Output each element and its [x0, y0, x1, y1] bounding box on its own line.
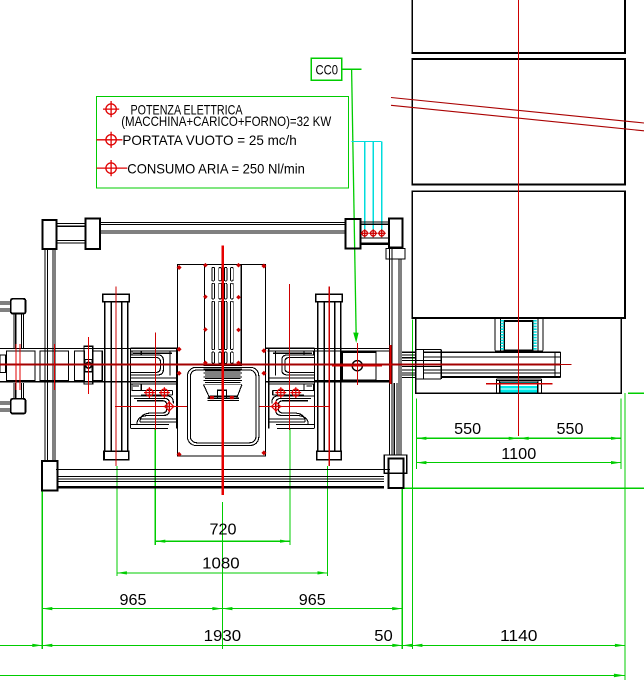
left support stand bottom block	[11, 399, 26, 414]
frame top-left outer block	[43, 220, 57, 249]
hose 3	[381, 142, 383, 232]
right clamp jaw inner	[285, 357, 315, 372]
spindle thread ribs	[204, 366, 242, 385]
clamp bolt symbols right pair	[275, 387, 301, 398]
svg-text:965: 965	[120, 592, 147, 609]
clamp lower crosshair left	[115, 405, 187, 407]
arrows 1100	[416, 461, 426, 464]
spindle tool body	[205, 265, 242, 366]
bottom rail thick lower edge	[58, 486, 385, 488]
note symbol 2	[97, 132, 123, 148]
clamp bolt symbols left pair	[144, 387, 170, 398]
bearing circle	[86, 362, 92, 368]
pad crosshair horizontal	[486, 383, 552, 385]
chuck inner square	[504, 321, 533, 351]
left clamp left edge	[130, 348, 132, 428]
extension line machine left edge	[41, 491, 43, 650]
right arm end cap	[555, 352, 560, 377]
tool slots row 4	[212, 352, 233, 363]
top-left connector bars	[56, 224, 85, 244]
bolt hole circle	[352, 361, 362, 371]
right column body	[318, 302, 341, 452]
left column body	[105, 302, 128, 452]
frame bottom-right outer plate	[384, 455, 407, 473]
conveyor left end plate	[0, 355, 6, 373]
right clamp left verticals	[269, 348, 276, 428]
extension line machine right edge	[401, 489, 403, 649]
tool slots row 2	[212, 283, 233, 299]
tool screw markers	[203, 263, 241, 365]
right clamp mid lines	[269, 378, 315, 384]
left clamp top plate	[131, 348, 178, 351]
arrows 965 left	[42, 607, 52, 610]
conveyor edges inside frame right part	[265, 348, 390, 381]
nozzle red marks	[210, 396, 234, 399]
clamp diamond symbol right	[270, 401, 281, 412]
left clamp lower notch	[132, 384, 141, 391]
chuck cyan hatch left	[501, 320, 504, 350]
arrows 1080	[117, 571, 127, 574]
chuck cyan hatch right	[533, 320, 536, 350]
bottom rail	[58, 477, 385, 482]
arrow bottom overall	[614, 674, 625, 678]
right clamp jaw outer	[282, 355, 315, 375]
hose coupler circles	[361, 229, 386, 237]
extension line left column center	[116, 466, 118, 576]
CC0 label box	[311, 58, 342, 80]
arrows 550 left	[416, 437, 426, 440]
left column foot	[104, 451, 129, 459]
svg-text:50: 50	[374, 628, 393, 645]
roller centerline c	[54, 344, 56, 390]
spindle outer box	[178, 265, 266, 457]
pocket rounded rect inner	[190, 370, 256, 443]
CC0 leader horizontal	[342, 68, 362, 70]
right clamp lower notch	[304, 384, 313, 391]
right arm hatch zone	[402, 352, 416, 377]
left column centerline	[115, 287, 117, 466]
furnace module 1	[412, 0, 625, 53]
conveyor main centerline	[0, 363, 561, 365]
left clamp centerline	[155, 333, 157, 430]
left stand lower arms	[0, 402, 11, 411]
right column cap	[316, 294, 342, 301]
conveyor inner lines right part	[315, 351, 390, 381]
note box POTENZA/PORTATA/CONSUMO	[97, 97, 349, 189]
extension line left clamp center	[154, 429, 156, 545]
coupler 2	[371, 231, 376, 236]
left stand upper legs	[14, 314, 24, 348]
right clamp right edge	[314, 348, 316, 428]
svg-text:965: 965	[299, 592, 326, 609]
red diagonal pipe line lower	[391, 105, 644, 131]
extension line right clamp center	[289, 429, 291, 545]
right arm flange	[416, 349, 442, 379]
conveyor roller box 4	[93, 351, 103, 381]
coupler 1	[362, 231, 367, 236]
svg-text:PORTATA VUOTO = 25 mc/h: PORTATA VUOTO = 25 mc/h	[122, 132, 296, 148]
arrows 1930	[42, 644, 52, 647]
right clamp bolt bar	[273, 390, 304, 395]
stub line right of furnace base	[628, 392, 644, 394]
svg-text:CONSUMO ARIA = 250 Nl/min: CONSUMO ARIA = 250 Nl/min	[127, 161, 305, 177]
frame inner bottom line	[56, 469, 390, 471]
top-right connector bars	[361, 222, 389, 238]
right rail extra lines below arm	[394, 383, 397, 455]
extension line furnace right outer	[624, 393, 626, 680]
left clamp jaw outer	[131, 355, 164, 375]
dimension line 1100	[416, 462, 621, 464]
svg-text:720: 720	[210, 521, 237, 538]
spindle box screw markers	[177, 264, 267, 457]
left column cap	[103, 294, 129, 301]
conveyor bottom edge left of frame	[0, 381, 178, 383]
rail junction centerline	[390, 345, 392, 384]
note symbol 3	[97, 160, 128, 176]
pocket rounded rect outer	[188, 367, 259, 445]
lower pad stripes	[500, 385, 538, 389]
right clamp lower bracket inner	[269, 401, 309, 422]
tool slots row 1	[212, 267, 233, 281]
svg-text:1080: 1080	[202, 556, 240, 573]
floor line right	[398, 487, 644, 489]
conveyor top edge left of frame	[0, 347, 178, 349]
left clamp bolt bar	[141, 390, 172, 395]
dimension line 550+550	[416, 437, 621, 439]
conveyor roller box 2	[40, 351, 69, 381]
furnace module 3	[412, 191, 625, 318]
roller centerline a	[15, 344, 17, 390]
frame bottom-right inner block	[389, 459, 404, 488]
top-right lower plate	[386, 249, 405, 260]
nozzle base plate	[207, 398, 239, 400]
clamp diamond symbol left	[164, 401, 175, 412]
nozzle inner line	[210, 395, 237, 397]
left clamp mid lines	[131, 378, 177, 384]
svg-text:550: 550	[454, 421, 481, 438]
hose header horizontal	[352, 141, 382, 143]
right column centerline	[328, 287, 330, 466]
frame top-right inner block	[346, 219, 361, 248]
left rail	[45, 249, 55, 461]
left clamp lower bracket mid	[134, 398, 170, 424]
frame top-right outer block	[389, 219, 403, 248]
tool slots row 3	[212, 301, 233, 350]
right clamp lower bracket outer	[272, 396, 314, 429]
bolt hole crosshair horizontal	[332, 365, 382, 367]
clamp lower crosshair right	[260, 405, 331, 407]
left stand lower legs	[14, 383, 24, 399]
machine main vertical centerline thick	[221, 246, 224, 495]
top-right connector bottom bar	[361, 243, 389, 245]
green dimension arrowheads	[32, 437, 625, 678]
arrows 1140	[615, 644, 625, 647]
bearing crosshair vertical	[88, 337, 90, 394]
right clamp top plate	[265, 348, 314, 351]
bolt hole crosshair vertical	[356, 343, 358, 385]
dimension line 1930+50+1140	[0, 644, 625, 646]
left clamp jaw inner	[131, 357, 161, 372]
note symbol 1	[103, 101, 119, 117]
lower pad outline	[500, 382, 538, 393]
furnace base section	[416, 318, 622, 393]
furnace vertical centerline	[518, 0, 520, 436]
arrows 550 right	[519, 437, 529, 440]
chuck upper left posts	[495, 318, 501, 351]
extension line right column center	[327, 466, 329, 576]
dimension line bottom overall	[0, 674, 625, 676]
right clamp centerline	[289, 284, 291, 430]
hose 1	[364, 142, 366, 232]
hose 2	[372, 142, 374, 232]
CC0 leader vertical	[352, 69, 357, 338]
red diagonal pipe line upper	[391, 98, 644, 124]
extension line machine center	[221, 502, 223, 649]
left clamp lower bracket inner	[137, 401, 177, 422]
svg-text:CC0: CC0	[316, 62, 339, 78]
svg-text:1930: 1930	[204, 628, 242, 645]
left stand upper arms	[0, 302, 11, 311]
chuck upper right posts	[538, 318, 543, 351]
svg-text:(MACCHINA+CARICO+FORNO)=32 KW: (MACCHINA+CARICO+FORNO)=32 KW	[121, 113, 332, 129]
coupler 3	[379, 231, 384, 236]
extension line furnace base right	[620, 398, 622, 469]
roller centerline b	[19, 344, 21, 390]
left clamp lower bracket outer	[131, 396, 173, 429]
bearing inner pocket	[85, 360, 92, 372]
frame top-left inner block	[85, 219, 100, 249]
furnace module 2	[412, 59, 625, 185]
right arm body lines	[441, 352, 560, 373]
dimension line 720	[155, 540, 290, 542]
conveyor centerline tail	[561, 363, 572, 365]
right clamp lower bracket mid	[276, 398, 312, 424]
left clamp bottom lines	[131, 419, 177, 424]
extension line 50 offset	[411, 320, 413, 649]
right column foot	[317, 451, 342, 459]
chuck bottom bar	[495, 350, 543, 353]
conveyor bearing strip	[84, 346, 93, 384]
conveyor roller box 1	[7, 351, 35, 381]
arrows 50	[402, 644, 412, 647]
left clamp notch upper	[132, 351, 172, 355]
extension line furnace base left	[415, 398, 417, 469]
CC0 leader arrowhead	[353, 333, 358, 344]
svg-text:1100: 1100	[501, 446, 536, 463]
svg-text:550: 550	[557, 421, 584, 438]
left clamp right verticals	[170, 348, 177, 428]
right clamp notch upper	[273, 351, 313, 355]
dimension line 1080	[117, 572, 328, 574]
frame bottom-left block	[42, 461, 58, 490]
right clamp bottom lines	[269, 419, 315, 424]
lower pad cyan fill	[500, 382, 538, 393]
dimension line 965+965	[42, 608, 402, 610]
lower pad bracket	[497, 379, 542, 394]
right rail	[390, 247, 401, 455]
conveyor box with hole	[342, 352, 376, 380]
arrows 720	[155, 540, 165, 543]
top rail	[100, 222, 346, 233]
conveyor roller box 3	[75, 351, 85, 381]
right arm bottom edge	[441, 376, 560, 378]
svg-text:1140: 1140	[500, 628, 538, 645]
nozzle trapezoid	[204, 385, 242, 399]
nozzle tip square	[218, 390, 227, 398]
left support stand top block	[11, 299, 26, 314]
